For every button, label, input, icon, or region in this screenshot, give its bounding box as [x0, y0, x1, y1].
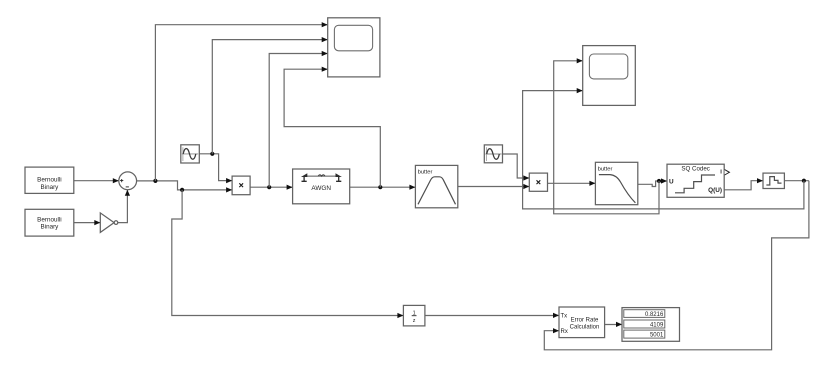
wire: Bernoulli2 to NOT [74, 220, 101, 225]
wire: tap to Scope1 in2 [212, 37, 327, 154]
wire: SQ Codec Q(U) to Zero-Order Hold [724, 178, 763, 190]
block: Sine Wave 1 [181, 145, 200, 163]
svg-text:butter: butter [418, 170, 433, 176]
block: Product 1 [232, 176, 250, 195]
svg-text:z: z [413, 318, 416, 324]
wire: tap to Scope1 in3 [269, 51, 328, 187]
block: SQ Codec (Scalar Quantizer) [667, 164, 724, 197]
wire: Product1 to AWGN [250, 185, 293, 190]
wire: tap to Scope1 in1 [155, 22, 327, 181]
svg-text:SQ Codec: SQ Codec [681, 165, 710, 172]
svg-text:4109: 4109 [650, 323, 664, 329]
wire: Unit Delay to Error Rate Tx [425, 313, 559, 318]
block: Bernoulli Binary Generator 2 [25, 209, 74, 236]
svg-text:Binary: Binary [40, 224, 59, 231]
wire: Bernoulli1 to Sum [74, 178, 119, 183]
block: Bernoulli Binary Generator 1 [25, 167, 74, 193]
svg-text:Error Rate: Error Rate [571, 317, 599, 323]
wire: Butter lowpass to SQ Codec U [638, 178, 667, 186]
wire: Product2 to Butter lowpass [548, 181, 596, 186]
wire: feedback down to Unit Delay [172, 190, 404, 318]
wire: tap to Scope2 in1 [554, 58, 659, 214]
block: Butterworth bandpass filter [415, 165, 457, 207]
block: Unit Delay 1/z [403, 305, 425, 326]
block: Scope 2 [583, 46, 636, 106]
svg-text:Rx: Rx [561, 329, 568, 335]
wire: NOT output up to Sum bottom [118, 190, 130, 223]
junction: ZOH output tap [802, 179, 806, 183]
wire: tap to Scope1 in4 [284, 67, 380, 188]
svg-text:Bernoulli: Bernoulli [37, 177, 62, 184]
wire: tap to Scope2 in2 [523, 88, 804, 209]
wire: Sine1 to Product1 in1 [199, 154, 232, 183]
wire: Error Rate to Display [605, 322, 622, 327]
block: Product 2 [529, 173, 547, 191]
svg-text:Binary: Binary [40, 184, 59, 191]
wire: Butter bandpass to Product2 in2 [458, 184, 530, 189]
junction: AWGN output tap [378, 185, 382, 189]
junction: product1 in2 feedback tap [180, 188, 184, 192]
block: Sine Wave 2 [484, 145, 502, 163]
junction: sine1 output tap [210, 152, 214, 156]
block: Display [622, 308, 680, 342]
wire: Sum output to Product1 in2 [137, 181, 233, 193]
block: NOT gate (Logical Operator) [100, 213, 117, 233]
block: Zero-Order Hold [763, 173, 784, 188]
svg-text:butter: butter [598, 167, 613, 173]
svg-text:Tx: Tx [561, 314, 568, 320]
svg-text:Bernoulli: Bernoulli [37, 216, 62, 223]
svg-text:AWGN: AWGN [311, 185, 331, 192]
svg-text:5001: 5001 [650, 333, 664, 339]
junction: sum output tap [153, 179, 157, 183]
wire: AWGN to Butter bandpass [350, 185, 416, 190]
block: Sum (comparator) [119, 172, 137, 190]
wire: ZOH output to corner [784, 180, 809, 182]
svg-text:Calculation: Calculation [570, 325, 600, 331]
junction: product1 output tap [267, 185, 271, 189]
svg-text:0.8216: 0.8216 [645, 312, 664, 318]
svg-text:U: U [669, 178, 674, 185]
block: Butterworth lowpass filter [595, 162, 637, 204]
wire: Sine2 to Product2 in1 [503, 154, 530, 181]
block: Error Rate Calculation [559, 307, 605, 338]
port: SQ Codec unconnected I output [725, 170, 730, 175]
wire: feedback to Error Rate Rx [544, 181, 809, 350]
svg-text:Q(U): Q(U) [708, 187, 722, 194]
block: AWGN Channel [293, 169, 350, 204]
block: Scope 1 [328, 18, 380, 77]
junction: SQ input tap [657, 179, 661, 183]
